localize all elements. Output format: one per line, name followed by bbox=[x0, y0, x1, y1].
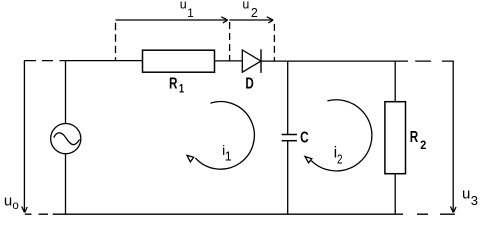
svg-text:u: u bbox=[4, 193, 12, 210]
capacitor C top plate bbox=[282, 134, 297, 136]
svg-text:u: u bbox=[242, 0, 249, 12]
svg-text:o: o bbox=[12, 200, 18, 212]
wire source branch lower bbox=[65, 154, 67, 214]
label u2 bbox=[242, 0, 258, 20]
wire top solid: R1 to diode bbox=[215, 60, 243, 62]
u2 arrow line bbox=[229, 19, 272, 21]
wire top dashed left segment bbox=[24, 60, 65, 62]
u3 measuring line with down arrow bbox=[452, 61, 454, 212]
diode D triangle bbox=[242, 50, 261, 72]
resistor R2 bbox=[385, 102, 406, 174]
mesh current i2 loop arrow bbox=[311, 100, 372, 171]
mesh current i1 loop arrow bbox=[195, 102, 254, 170]
svg-text:u: u bbox=[180, 0, 187, 12]
svg-text:2: 2 bbox=[251, 6, 258, 20]
wire R2 branch upper bbox=[394, 61, 396, 102]
wire bottom dashed left segment bbox=[25, 213, 65, 215]
svg-text:2: 2 bbox=[420, 140, 426, 153]
voltage source circle bbox=[51, 124, 81, 154]
svg-text:C: C bbox=[300, 128, 309, 146]
u1 arrow line bbox=[116, 19, 228, 21]
svg-text:u: u bbox=[462, 186, 470, 203]
label R2 value bbox=[410, 127, 426, 152]
wire capacitor branch upper bbox=[287, 61, 289, 134]
label i2 bbox=[334, 144, 343, 166]
dashed measuring line node right of D bbox=[273, 24, 275, 61]
dashed measuring line node between R1 and D bbox=[229, 22, 231, 61]
label R1 value bbox=[169, 74, 184, 96]
label u1 bbox=[180, 0, 194, 20]
wire capacitor branch lower bbox=[287, 141, 289, 214]
svg-text:3: 3 bbox=[471, 193, 478, 208]
svg-text:2: 2 bbox=[337, 152, 343, 167]
wire top solid: diode to right corner bbox=[261, 60, 408, 62]
svg-text:D: D bbox=[245, 75, 253, 92]
wire bottom solid bbox=[65, 213, 403, 215]
wire source branch upper bbox=[65, 61, 67, 123]
wire top dashed right segment bbox=[415, 60, 454, 62]
u0 measuring line with down arrow bbox=[23, 61, 25, 212]
label D value bbox=[245, 75, 253, 92]
svg-text:R: R bbox=[169, 74, 177, 92]
dashed measuring line node left of R1 bbox=[115, 23, 117, 61]
diode D cathode bar bbox=[260, 49, 262, 73]
label u0 bbox=[4, 193, 19, 213]
svg-text:1: 1 bbox=[187, 6, 194, 20]
label C value bbox=[300, 128, 309, 146]
voltage source sine symbol bbox=[54, 133, 80, 145]
wire top solid: source node to R1 bbox=[65, 60, 143, 62]
resistor R1 bbox=[143, 50, 215, 72]
label u3 bbox=[462, 186, 478, 209]
label i1 bbox=[222, 142, 232, 163]
capacitor C bottom plate bbox=[282, 140, 297, 142]
wire R2 branch lower bbox=[394, 174, 396, 215]
svg-text:1: 1 bbox=[179, 82, 184, 96]
svg-text:R: R bbox=[410, 127, 418, 145]
wire bottom dashed right segment bbox=[417, 213, 455, 215]
svg-text:1: 1 bbox=[225, 150, 232, 164]
